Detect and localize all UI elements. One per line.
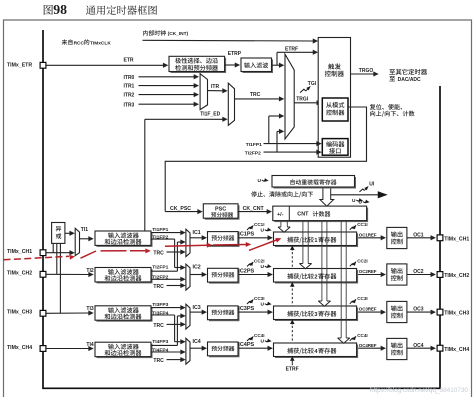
svg-text:U: U	[352, 198, 356, 204]
svg-text:CNT: CNT	[297, 212, 309, 218]
wire OC2	[407, 274, 432, 276]
svg-text:ITR3: ITR3	[124, 102, 135, 108]
channel 2 filter block 输入滤波器和边沿检测器	[97, 269, 153, 283]
svg-text:TIMx_CH4: TIMx_CH4	[444, 347, 469, 353]
wires XOR inputs from CH1-CH3	[52, 243, 54, 252]
mux IC2 select	[186, 264, 190, 290]
mux TRGI select	[285, 54, 294, 139]
hollow arrow CNT to capture/compare 1	[280, 221, 282, 227]
svg-text:ETRP: ETRP	[228, 51, 242, 57]
wire OC1	[407, 237, 432, 239]
wire TI1	[80, 238, 90, 240]
svg-text:TI2FP2: TI2FP2	[152, 275, 168, 281]
block trigger controller 触发控制器	[318, 38, 350, 158]
wire U update event	[331, 194, 378, 196]
capture/compare register 1 捕获/比较1寄存器	[275, 234, 358, 248]
wire OC2REF	[358, 274, 382, 276]
wire XOR output	[65, 232, 71, 234]
label CC4I right with event arrow	[350, 338, 353, 341]
hollow arrow CNT to capture/compare 3	[321, 221, 323, 301]
capture/compare register texts	[287, 237, 293, 243]
timer block border left/bottom/right	[43, 30, 440, 388]
mux IC1 select	[186, 229, 190, 256]
wire TI3 from CH3 pin	[46, 312, 90, 314]
mux TRC select	[228, 83, 234, 125]
svg-text:OC4REF: OC4REF	[359, 343, 377, 348]
svg-text:TRGI: TRGI	[296, 97, 309, 103]
svg-text:TIMx_CH4: TIMx_CH4	[7, 345, 32, 351]
svg-text:TI2: TI2	[86, 268, 93, 274]
output control block 4 输出控制	[387, 338, 407, 359]
wires into IC1 mux	[151, 232, 181, 234]
svg-text:98: 98	[53, 2, 67, 17]
block XOR 异或	[52, 223, 65, 244]
svg-text:CC1I: CC1I	[357, 222, 367, 227]
svg-text:U: U	[261, 338, 265, 344]
wire ITR	[208, 90, 224, 92]
svg-text:TIMx_CH3: TIMx_CH3	[7, 310, 32, 316]
svg-text:IC1: IC1	[193, 230, 201, 236]
svg-text:IC4PS: IC4PS	[238, 342, 254, 348]
mux IC3 select	[186, 304, 190, 329]
wire OC1REF	[358, 237, 382, 239]
wire OC4	[407, 347, 432, 349]
wire IC3PS	[238, 311, 269, 313]
svg-text:TI1FP1: TI1FP1	[246, 142, 262, 148]
svg-text:IC3PS: IC3PS	[238, 306, 254, 312]
svg-text:CC3I: CC3I	[254, 296, 264, 301]
red annotation stroke 2	[81, 251, 97, 258]
svg-text:ITR: ITR	[211, 84, 219, 90]
wire OC4REF	[358, 347, 382, 349]
wire TI4 from CH4 pin	[46, 348, 90, 350]
wires TI1FP1 TI2FP2 to encoder interface	[264, 143, 318, 145]
svg-text:TI1: TI1	[81, 227, 88, 233]
red annotation arrow 3 pointing at TRC	[101, 250, 146, 252]
svg-text:TI4: TI4	[86, 342, 93, 348]
output control block 2 输出控制	[387, 264, 407, 285]
channel 4 prescaler 预分频器	[209, 344, 240, 358]
svg-text:3: 3	[314, 312, 317, 318]
svg-text:CC4I: CC4I	[357, 333, 367, 338]
block slave mode controller 从模式控制器	[322, 98, 348, 121]
capture/compare register 3 捕获/比较3寄存器	[275, 308, 358, 322]
svg-text:TI2FP2: TI2FP2	[245, 150, 261, 156]
svg-text:TI3: TI3	[86, 306, 93, 312]
label TGI with event arrow	[300, 89, 306, 92]
wire TI1FP1 to TRGI mux	[268, 116, 270, 144]
svg-text:OC1: OC1	[413, 232, 424, 238]
svg-text:IC3: IC3	[193, 305, 201, 311]
red annotation arrow 4	[165, 245, 207, 246]
hollow arrow CNT to capture/compare 2	[302, 221, 304, 264]
wire TI2FP2 to TRGI mux	[276, 131, 278, 152]
wire TRGI	[294, 102, 317, 104]
svg-text:TIMx_CH1: TIMx_CH1	[7, 249, 32, 255]
label CC1I right with event arrow	[350, 227, 353, 230]
wires ITR0-ITR3	[139, 76, 195, 78]
svg-text:OC2: OC2	[413, 269, 424, 275]
svg-text:TIMx_CH2: TIMx_CH2	[444, 273, 469, 279]
red annotation dashed arrow 1	[4, 256, 70, 260]
svg-text:IC4: IC4	[193, 339, 201, 345]
block input filter 输入滤波	[243, 60, 274, 74]
svg-text:U: U	[258, 178, 262, 184]
channel 1 prescaler 预分频器	[209, 233, 240, 247]
svg-text:ETR: ETR	[124, 58, 134, 64]
channel 3 prescaler 预分频器	[209, 307, 240, 321]
wire CK_CNT	[238, 211, 268, 213]
wire IC2	[190, 274, 203, 276]
label 来自RCC的TIMxCLK	[62, 39, 68, 44]
label 至其它定时器 至DAC/ADC	[389, 69, 395, 74]
svg-text:https://blog.csdn.net/qq_38410: https://blog.csdn.net/qq_38410730	[370, 387, 469, 394]
svg-text:TIMx_CH1: TIMx_CH1	[444, 236, 469, 242]
svg-text:TIMx_CH2: TIMx_CH2	[7, 271, 32, 277]
svg-text:TRC: TRC	[153, 323, 164, 329]
label 停止、清除或向上/向下	[251, 191, 257, 197]
wire CK_INT	[143, 39, 314, 42]
label CC4I left with event arrow	[247, 339, 251, 342]
channel 2 prescaler 预分频器	[209, 270, 240, 284]
label CC3I right with event arrow	[350, 301, 353, 304]
block prescaler PSC 预分频器	[205, 205, 240, 219]
svg-text:ITR2: ITR2	[124, 93, 135, 99]
wire ETRP	[225, 64, 236, 66]
svg-text:CC1I: CC1I	[254, 222, 264, 227]
svg-text:OC2REF: OC2REF	[359, 269, 377, 274]
svg-text:TI1FP2: TI1FP2	[152, 235, 168, 241]
mux IC4 select	[186, 338, 190, 364]
wire ETR	[46, 64, 164, 66]
label UI with event arrow	[360, 189, 365, 192]
wires into IC4 mux	[151, 344, 177, 346]
svg-text:CC2I: CC2I	[254, 259, 264, 264]
svg-text:TI3FP4: TI3FP4	[152, 310, 168, 316]
block auto-reload register 自动重装载寄存器	[274, 177, 357, 189]
wire OC3	[407, 311, 432, 313]
svg-text:TRC: TRC	[153, 250, 164, 256]
wire IC4	[190, 347, 203, 349]
mux ITR select	[200, 74, 207, 110]
pin TIMx_CH1 right	[437, 235, 443, 241]
svg-text:OC4: OC4	[413, 343, 424, 349]
svg-text:U: U	[261, 301, 265, 307]
svg-text:U: U	[261, 264, 265, 270]
svg-text:ETRF: ETRF	[286, 367, 299, 373]
output control block 1 输出控制	[387, 227, 407, 248]
svg-text:(CK_INT): (CK_INT)	[168, 31, 189, 37]
svg-text:TI1FP1: TI1FP1	[152, 227, 168, 233]
hollow arrow ARR to CNT	[320, 189, 334, 207]
channel 4 filter block 输入滤波器和边沿检测器	[97, 344, 153, 358]
wire TI1F_ED	[144, 119, 146, 231]
pin TIMx_CH2 right	[437, 272, 443, 278]
svg-text:TRC: TRC	[250, 92, 261, 98]
svg-text:1: 1	[314, 238, 317, 244]
label TI4FP3	[152, 338, 172, 344]
svg-text:U: U	[261, 227, 265, 233]
wire IC1	[190, 237, 203, 239]
label 复位、使能、向上/向下、计数	[370, 104, 376, 110]
svg-text:TRGO: TRGO	[359, 68, 374, 74]
red annotation arrow 5 into capture/compare 1	[249, 240, 276, 250]
svg-text:ITR1: ITR1	[124, 84, 135, 90]
svg-text:TGI: TGI	[308, 81, 317, 87]
svg-text:TRC: TRC	[153, 358, 164, 364]
channel 3 filter block 输入滤波器和边沿检测器	[97, 307, 153, 321]
label 内部时钟 (CK_INT)	[143, 30, 148, 35]
wire ETRF bottom into capture/compare 4	[290, 356, 294, 360]
wire IC1PS	[238, 237, 269, 239]
pin TIMx_CH3 right	[437, 309, 443, 315]
cross-feed riser V1 rows1-2	[174, 239, 176, 267]
hollow arrow CNT to capture/compare 4	[340, 221, 342, 338]
svg-text:TIMx_ETR: TIMx_ETR	[7, 63, 32, 69]
svg-text:OC3: OC3	[413, 307, 424, 313]
svg-text:TI3FP3: TI3FP3	[152, 302, 168, 308]
svg-text:DAC/ADC: DAC/ADC	[398, 77, 421, 83]
svg-text:OC1REF: OC1REF	[359, 232, 377, 237]
wires into IC2 mux	[151, 270, 177, 272]
block encoder interface 编码器接口	[322, 139, 348, 156]
wire TRC to TRGI mux	[235, 98, 281, 100]
svg-text:TIMx_CH3: TIMx_CH3	[444, 311, 469, 317]
wire TI2 from CH2 pin	[46, 273, 90, 275]
svg-text:OC3REF: OC3REF	[359, 307, 377, 312]
label CC2I right with event arrow	[350, 264, 353, 267]
cross-feed riser V2 rows1-2	[176, 242, 178, 271]
svg-text:TI2FP1: TI2FP1	[152, 265, 168, 271]
capture/compare register 2 捕获/比较2寄存器	[275, 270, 358, 284]
cross-feed riser V2 rows3-4	[176, 316, 178, 346]
wire IC2PS	[238, 274, 269, 276]
cross-feed riser V1 rows3-4	[174, 315, 176, 342]
svg-text:CK_PSC: CK_PSC	[170, 206, 191, 212]
output control block 3 输出控制	[387, 301, 407, 322]
wire ETRF to trigger-controller and TRGI mux	[272, 64, 278, 66]
channel 1 filter block 输入滤波器和边沿检测器	[97, 233, 153, 247]
pin TIMx_CH4 right	[437, 345, 443, 351]
svg-text:IC2PS: IC2PS	[238, 268, 254, 274]
svg-text:CC2I: CC2I	[357, 258, 367, 263]
wire CH1 to TI1 mux	[46, 252, 71, 254]
mux TI1 select	[75, 228, 79, 255]
capture/compare register 4 捕获/比较4寄存器	[275, 345, 358, 359]
wire OC3REF	[358, 311, 382, 313]
svg-text:TI1F_ED: TI1F_ED	[200, 111, 220, 117]
svg-text:ITR0: ITR0	[124, 75, 135, 81]
svg-text:TIMxCLK: TIMxCLK	[90, 40, 111, 46]
wire IC4PS	[238, 347, 269, 349]
wire IC3	[190, 311, 203, 313]
svg-text:TRC: TRC	[153, 284, 164, 290]
dashed capture chain with up arrows	[290, 246, 294, 250]
svg-text:CC3I: CC3I	[357, 296, 367, 301]
svg-text:IC2: IC2	[193, 265, 201, 271]
svg-text:CC4I: CC4I	[254, 333, 264, 338]
wire TRGO	[351, 73, 375, 75]
block polarity/edge-detect/prescaler 极性选择、边沿检测和预分频器	[171, 58, 227, 73]
label TI2FP1	[152, 264, 172, 270]
svg-text:TI4FP4: TI4FP4	[152, 347, 168, 353]
label CC3I left with event arrow	[247, 302, 251, 305]
svg-text:ETRF: ETRF	[285, 46, 298, 52]
svg-text:CK_CNT: CK_CNT	[243, 206, 265, 212]
svg-text:UI: UI	[369, 181, 375, 187]
label CC1I left with event arrow	[247, 228, 251, 231]
svg-text:+/-: +/-	[277, 212, 284, 218]
svg-text:PSC: PSC	[215, 207, 226, 213]
wire slave-mode outputs to PSC (CK_PSC feedback)	[165, 107, 366, 212]
svg-text:RCC: RCC	[74, 40, 85, 46]
block counter CNT 计数器	[274, 208, 368, 223]
label CC2I left with event arrow	[247, 264, 251, 267]
wires into IC3 mux	[151, 307, 181, 309]
title 图98 通用定时器框图	[44, 5, 53, 15]
svg-text:TI4FP3: TI4FP3	[152, 339, 168, 345]
svg-text:2: 2	[314, 275, 317, 281]
svg-text:IC1PS: IC1PS	[238, 232, 254, 238]
